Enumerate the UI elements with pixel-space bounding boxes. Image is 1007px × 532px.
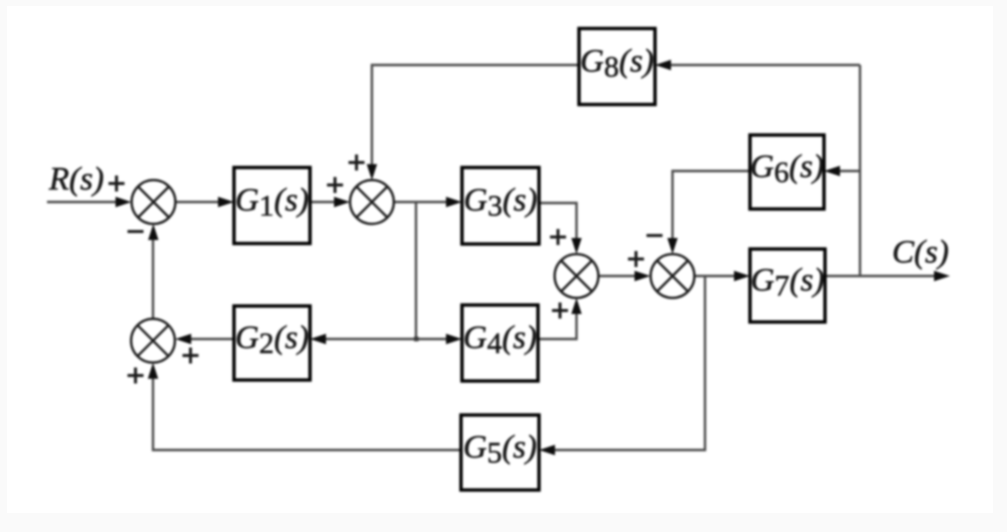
summing junction S2	[350, 180, 394, 224]
block G3 box	[462, 168, 539, 245]
arrowhead into G2 (pointing left)	[310, 334, 326, 344]
summing junction S5	[131, 319, 175, 363]
label G1(s)	[235, 183, 309, 223]
arrowhead into G4	[446, 334, 462, 344]
label R(s)	[48, 162, 104, 198]
arrowhead into S4 left	[635, 271, 651, 281]
arrowhead into G8 (pointing left)	[655, 60, 671, 70]
label G5(s)	[463, 430, 537, 470]
arrowhead into G6 (pointing left)	[824, 166, 840, 176]
junction dot at node A branch	[414, 337, 419, 342]
svg-text:G2(s): G2(s)	[235, 320, 309, 360]
arrowhead into G7	[734, 271, 750, 281]
block G1 box	[234, 168, 310, 244]
wire G6 output down into summing junction S4	[673, 171, 751, 242]
svg-text:G3(s): G3(s)	[464, 183, 538, 223]
arrowhead down into S3 top	[571, 238, 581, 254]
plus sign at left input of S4	[628, 251, 644, 267]
plus sign at R(s) input of S1	[109, 176, 125, 192]
label C(s)	[892, 235, 949, 271]
wire S3 to summing junction S4	[599, 275, 639, 277]
svg-text:G7(s): G7(s)	[751, 263, 825, 303]
wire vertical branch node A down to G2/G4 line	[415, 202, 417, 339]
label G2(s)	[235, 320, 309, 360]
svg-text:G4(s): G4(s)	[463, 320, 537, 360]
block G5 box	[461, 415, 539, 490]
arrowhead up into S5 bottom	[148, 363, 158, 379]
wire feedback vertical from node C up to G8 level	[859, 65, 861, 276]
arrowhead up into S1 bottom	[148, 224, 158, 240]
plus sign at bottom input of S5	[128, 368, 144, 384]
plus sign at G3 input of S3	[550, 229, 566, 245]
wire G1 to summing junction S2	[310, 201, 338, 203]
wire G8 output left and down into summing junction S2	[372, 65, 579, 168]
arrowhead down into S4 top	[667, 238, 677, 254]
label G7(s)	[751, 263, 825, 303]
wire G7 output to C(s) with takeoff at node C	[825, 275, 938, 277]
svg-text:G8(s): G8(s)	[580, 44, 654, 84]
wire feedback branch into G6	[836, 170, 860, 172]
wire branch line to G2 (left) and G4 (right)	[322, 338, 450, 340]
arrowhead into G1	[218, 197, 234, 207]
plus sign at G4 input of S3	[552, 303, 568, 319]
block G6 box	[750, 135, 824, 209]
block G7 box	[750, 249, 825, 322]
svg-text:G1(s): G1(s)	[235, 183, 309, 223]
arrowhead into S2 left	[334, 197, 350, 207]
arrowhead into S5 right (pointing left)	[175, 334, 191, 344]
wire G4 output up into summing junction S3	[538, 310, 577, 339]
wire S4 to G7 with takeoff at node B	[695, 275, 739, 277]
svg-text:C(s): C(s)	[892, 235, 949, 271]
label G3(s)	[464, 183, 538, 223]
wire G5 output left and up into summing junction S5	[153, 375, 461, 450]
arrowhead C(s) output	[934, 271, 950, 281]
plus sign at top input of S2	[349, 155, 365, 171]
svg-text:R(s): R(s)	[48, 162, 104, 198]
block G2 box	[234, 306, 310, 380]
minus sign above S4	[647, 234, 663, 237]
wire takeoff node B down and left to G5 input	[551, 276, 705, 450]
label G6(s)	[750, 149, 824, 189]
wire S1 to G1	[176, 201, 223, 203]
arrowhead into G5 (pointing left)	[539, 445, 555, 455]
summing junction S1	[132, 180, 176, 224]
minus sign below S1	[128, 230, 144, 233]
label G8(s)	[580, 44, 654, 84]
arrowhead into S1	[116, 197, 132, 207]
arrowhead down into S2 top	[367, 164, 377, 180]
block G4 box	[462, 305, 538, 381]
wire G3 output down into summing junction S3	[539, 203, 577, 242]
block G8 box	[579, 29, 655, 105]
label G4(s)	[463, 320, 537, 360]
summing junction S3	[555, 254, 599, 298]
summing junction S4	[651, 254, 695, 298]
arrowhead up into S3 bottom	[571, 298, 581, 314]
wire G2 output into summing junction S5	[187, 338, 234, 340]
wire top feedback into G8	[667, 64, 860, 66]
wire S5 up into summing junction S1	[152, 236, 154, 319]
plus sign at G2 input of S5	[183, 348, 199, 364]
svg-text:G5(s): G5(s)	[463, 430, 537, 470]
arrowhead into G3	[446, 197, 462, 207]
wire R(s) input to summing junction S1	[47, 201, 119, 203]
wire S2 to G3 with junction at node A	[394, 201, 450, 203]
svg-text:G6(s): G6(s)	[750, 149, 824, 189]
plus sign at left input of S2	[327, 177, 343, 193]
